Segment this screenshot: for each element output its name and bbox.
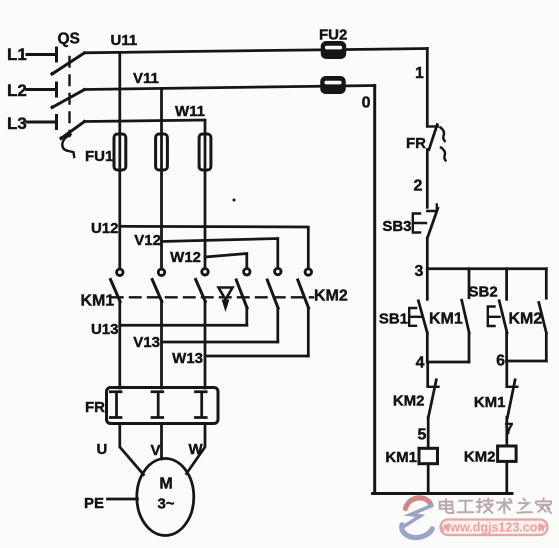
wire KM2 aux lower [545, 333, 548, 361]
svg-text:4: 4 [416, 355, 425, 372]
svg-text:FU2: FU2 [319, 27, 347, 44]
fuse FU2 a [322, 42, 346, 58]
motor M [137, 459, 194, 536]
svg-text:KM2: KM2 [464, 449, 496, 466]
svg-text:V13: V13 [133, 334, 160, 351]
svg-text:6: 6 [496, 353, 505, 370]
switch QS coupler dashed link [68, 57, 70, 136]
wire U13 drop left [118, 302, 121, 389]
wire W13 drop left [204, 302, 207, 389]
switch QS coupler hook [62, 135, 74, 158]
wire motor lead U [120, 424, 144, 475]
wire U13 [120, 324, 247, 327]
svg-text:1: 1 [415, 65, 424, 82]
svg-text:U13: U13 [91, 321, 119, 338]
contactor KM1 main contact blade U [111, 280, 121, 302]
wire PE [108, 498, 138, 501]
watermark char shu [497, 499, 512, 513]
svg-text:SB2: SB2 [469, 284, 498, 301]
wire V13 drop left [160, 302, 163, 389]
svg-text:QS: QS [58, 31, 80, 48]
wire control rail top [426, 49, 429, 127]
button SB2 blade [499, 301, 507, 333]
wire node 4 [427, 361, 469, 364]
svg-text:3~: 3~ [157, 496, 174, 513]
svg-text:KM1: KM1 [429, 311, 463, 328]
svg-text:U12: U12 [91, 220, 119, 237]
wire motor lead W [187, 424, 206, 474]
contactor KM1 main contact blade V [152, 280, 162, 302]
fuse FU2 b [321, 77, 345, 93]
contactor KM2 main contact terminal 1 [244, 269, 250, 275]
wire L1 lead [27, 48, 57, 61]
fuse FU1 b [156, 134, 168, 170]
wire bus V11 [85, 86, 375, 90]
wire bus U11 [85, 49, 428, 53]
svg-text:FR: FR [406, 135, 426, 152]
svg-text:KM2: KM2 [509, 311, 543, 328]
svg-text:W13: W13 [172, 350, 203, 367]
button SB1 blade [418, 301, 427, 333]
wire KM2 contact 1 to U13 [245, 308, 248, 325]
wire branch top bus [427, 267, 546, 270]
svg-text:W: W [189, 441, 204, 458]
relay FR heater element W [196, 392, 207, 418]
svg-text:KM1: KM1 [474, 394, 506, 411]
contactor KM2 main contact terminal 2 [275, 268, 281, 274]
contactor KM1 main contact terminal U [117, 269, 123, 275]
wire node6 to KM1 interlock [505, 361, 508, 387]
contactor KM2 aux contact blade [539, 303, 547, 334]
svg-text:0: 0 [362, 95, 371, 112]
contactor KM2 main contact blade 3 [298, 280, 309, 308]
relay FR trip contact blade [429, 125, 437, 150]
wire motor lead V [160, 424, 163, 460]
fuse FU2 a window [325, 46, 342, 50]
watermark logo red arc [406, 498, 431, 509]
button SB1 actuator [409, 308, 421, 326]
wire SB2 lower [505, 333, 508, 361]
wire KM1 aux upper [468, 269, 471, 298]
svg-text:M: M [159, 476, 172, 493]
mechanical interlock symbol [219, 288, 233, 313]
button SB3 actuator [413, 214, 426, 233]
coil KM1 [419, 448, 438, 463]
wire node4 to KM2 interlock [426, 362, 429, 387]
wire U12 cross-feed [120, 226, 308, 268]
svg-text:2: 2 [414, 178, 423, 195]
wire L2 lead [27, 83, 57, 96]
switch QS blade L1 [51, 53, 85, 75]
mechanical interlock dashed line [112, 296, 313, 298]
fuse FU1 a [114, 134, 126, 170]
svg-text:www.dgjs123.com: www.dgjs123.com [440, 521, 549, 535]
relay FR heater box [107, 388, 219, 424]
wire U phase vertical [118, 52, 121, 268]
watermark logo bolt [402, 505, 434, 528]
button SB2 actuator [488, 307, 500, 327]
wire SB1 upper [426, 269, 429, 300]
watermark site name [440, 498, 551, 513]
wire W13 [205, 355, 308, 358]
contactor KM1 main contact blade W [196, 280, 206, 302]
switch QS blade L3 [60, 122, 85, 140]
svg-text:V12: V12 [134, 232, 161, 249]
watermark url box [440, 520, 549, 536]
svg-text:V11: V11 [133, 70, 159, 87]
svg-text:L1: L1 [7, 45, 27, 64]
svg-text:V: V [151, 442, 161, 459]
button SB3 blade [427, 208, 437, 238]
wire neutral rail [373, 86, 376, 494]
contactor KM2 main contact blade 2 [267, 280, 278, 308]
svg-text:U11: U11 [111, 32, 138, 49]
wire rail FR to SB3 [426, 150, 429, 208]
wire KM2 interlock to coil KM1 [427, 417, 430, 448]
wire KM1 aux lower [468, 333, 471, 362]
relay FR trip contact crossbar [427, 125, 438, 127]
relay FR heater element U [110, 392, 121, 418]
contactor KM2 main contact terminal 3 [305, 269, 311, 275]
contactor KM1 main contact terminal W [202, 269, 208, 275]
wire coil KM2 to bottom bus [505, 461, 508, 493]
svg-text:FR: FR [85, 399, 105, 416]
wire V12 cross-feed [162, 239, 278, 269]
wire V phase vertical [160, 89, 163, 269]
wire KM2 aux upper [545, 269, 548, 299]
switch QS blade L2 [51, 90, 85, 109]
fuse FU1 c [199, 134, 211, 170]
svg-text:PE: PE [84, 495, 104, 512]
wire L3 lead [27, 116, 57, 129]
wire bus W11 [85, 120, 206, 122]
svg-text:5: 5 [418, 427, 427, 444]
svg-text:SB1: SB1 [379, 311, 408, 328]
contactor KM1 main contact terminal V [158, 269, 164, 275]
ink speck [233, 199, 236, 202]
wire KM1 interlock to coil KM2 [505, 417, 508, 446]
contactor KM2 interlock blade [428, 380, 436, 418]
svg-text:KM2: KM2 [314, 288, 348, 305]
wire bottom bus [373, 492, 512, 495]
svg-text:KM2: KM2 [393, 393, 425, 410]
svg-text:L3: L3 [7, 114, 27, 133]
contactor KM1 interlock crossbar [507, 386, 518, 388]
wire SB2 upper [505, 269, 508, 300]
contactor KM2 main contact blade 1 [236, 280, 247, 308]
wire SB3 to node 3 [426, 238, 429, 269]
watermark char ji [477, 498, 493, 513]
svg-text:FU1: FU1 [85, 148, 113, 165]
wire W phase vertical [204, 121, 207, 269]
watermark logo blue arc [402, 525, 432, 538]
watermark char jia [536, 498, 551, 513]
wire node 6 [507, 360, 547, 363]
svg-text:W11: W11 [175, 103, 205, 120]
watermark char dian [440, 499, 454, 513]
fuse FU2 b window [325, 81, 342, 85]
relay FR heater element V [152, 392, 163, 418]
wire SB1 lower [426, 333, 429, 362]
wire W12 cross-feed [205, 254, 247, 269]
svg-text:KM1: KM1 [81, 293, 115, 310]
svg-text:W12: W12 [170, 249, 201, 266]
contactor KM1 interlock blade [507, 380, 515, 418]
relay FR trip actuator squiggle [441, 128, 446, 161]
svg-text:KM1: KM1 [385, 449, 417, 466]
svg-text:SB3: SB3 [382, 218, 411, 235]
svg-text:3: 3 [415, 263, 424, 280]
wire KM2 contact 2 to V13 [276, 308, 279, 342]
button SB3 fixed contact [427, 205, 437, 212]
watermark char zhi [517, 499, 532, 513]
contactor KM2 interlock crossbar [428, 386, 439, 388]
svg-text:L2: L2 [7, 81, 27, 100]
wire V13 [162, 341, 278, 344]
svg-text:U: U [97, 441, 108, 458]
coil KM2 [498, 446, 516, 461]
wire KM2 contact 3 to W13 [307, 308, 310, 356]
contactor KM1 aux contact blade [462, 300, 470, 333]
wire coil KM1 to bottom bus [427, 464, 430, 494]
watermark char gong [458, 501, 474, 512]
